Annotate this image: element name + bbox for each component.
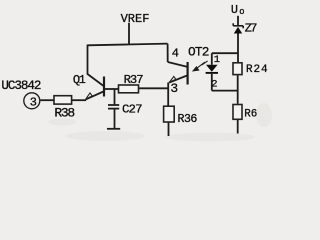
wire R37 to node 3 (139, 87, 169, 89)
wire below R36 (168, 122, 170, 136)
wire LED cathode stem (211, 74, 213, 91)
svg-text:4: 4 (172, 47, 179, 61)
svg-text:UC3842: UC3842 (1, 79, 41, 93)
LED triangle of OT2 (206, 65, 218, 72)
resistor R37 (119, 85, 139, 93)
wire node 3 column (167, 83, 169, 107)
svg-text:R24: R24 (246, 64, 269, 76)
transistor Q1 bar (103, 77, 105, 97)
wire below R6 (237, 120, 239, 134)
wire Uo stem (237, 16, 239, 25)
LED cathode bar (206, 72, 218, 74)
wire LED pin1 top (212, 52, 238, 54)
transistor OT2 bar (187, 62, 189, 85)
svg-text:2: 2 (211, 79, 217, 91)
wire C27 to ground (114, 109, 116, 128)
wire R24 to R6 (237, 75, 239, 104)
node 3 pin circle of UC3842 (24, 93, 40, 109)
svg-text:1: 1 (214, 54, 220, 66)
svg-text:Z7: Z7 (245, 21, 258, 35)
wire OT2 emitter (169, 76, 187, 83)
svg-text:o: o (239, 7, 244, 17)
wire Q1 emitter (86, 92, 104, 100)
Q1 emitter arrowhead (86, 93, 93, 100)
light arrow from LED to phototransistor (193, 61, 207, 71)
svg-text:3: 3 (30, 95, 37, 109)
wire LED anode stem (211, 53, 213, 65)
svg-text:Q1: Q1 (73, 73, 86, 87)
resistor R38 (54, 96, 72, 104)
svg-text:VREF: VREF (121, 12, 150, 26)
faint scan smudges (48, 103, 272, 142)
wire OT2 pin4 drop (167, 44, 169, 62)
svg-text:R36: R36 (178, 113, 198, 126)
wire pin3 circle to R38 (41, 99, 55, 101)
capacitor C27 top plate (108, 104, 119, 106)
svg-text:R6: R6 (244, 109, 257, 121)
svg-text:R38: R38 (54, 106, 74, 121)
wire zener to R24 (237, 33, 239, 62)
svg-text:OT2: OT2 (188, 44, 209, 59)
capacitor C27 bottom plate (108, 108, 119, 110)
wire Q1 collector from rail (88, 45, 104, 87)
wire C27 tap (114, 89, 116, 104)
svg-text:3: 3 (170, 81, 178, 96)
resistor R36 (164, 106, 175, 122)
resistor R6 (233, 105, 242, 120)
resistor R24 (233, 63, 242, 75)
zener diode Z7 (233, 23, 243, 28)
wire R38 to Q1 emitter (72, 99, 87, 101)
svg-text:C27: C27 (122, 102, 142, 116)
wire Q1 base to R37 (105, 88, 119, 90)
wire VREF rail (88, 44, 168, 46)
svg-text:R37: R37 (124, 73, 144, 87)
OT2 emitter arrowhead (169, 76, 176, 82)
wire OT2 collector diagonal (168, 62, 187, 67)
svg-text:U: U (231, 3, 238, 17)
wire LED pin2 to divider (212, 90, 238, 92)
ground bar under C27 (107, 128, 120, 130)
wire VREF drop (128, 23, 130, 45)
